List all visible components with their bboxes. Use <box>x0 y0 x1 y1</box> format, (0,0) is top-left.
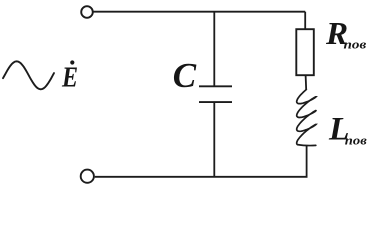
terminal top-left <box>81 6 93 18</box>
label R_pov <box>325 17 366 52</box>
wire right vertical top <box>304 12 306 30</box>
label L_pov <box>328 112 367 147</box>
terminal bottom-left <box>81 170 94 183</box>
capacitor C plates <box>199 86 232 102</box>
wire resistor to inductor <box>305 75 308 90</box>
source symbol: sine wave <box>3 61 54 89</box>
wire capacitor branch bottom <box>213 102 215 177</box>
svg-text:пов: пов <box>344 38 367 51</box>
wire bottom horizontal <box>95 176 308 178</box>
svg-text:E: E <box>61 62 78 93</box>
wire top horizontal <box>93 11 305 13</box>
wire capacitor branch top <box>213 12 215 87</box>
resistor R_pov body <box>296 29 314 75</box>
svg-text:C: C <box>173 56 197 95</box>
inductor L_pov coil <box>297 90 316 146</box>
wire inductor to bottom <box>306 146 308 178</box>
label E-dot (EMF source) <box>61 60 78 93</box>
svg-text:пов: пов <box>345 133 367 147</box>
